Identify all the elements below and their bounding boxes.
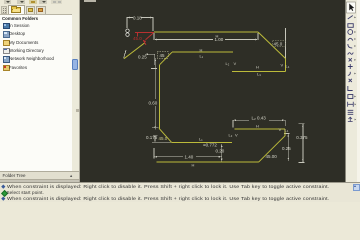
svg-text:V: V xyxy=(281,63,284,68)
Folder Tree footer bar xyxy=(0,171,79,180)
svg-text:V: V xyxy=(235,133,238,138)
svg-text:H: H xyxy=(256,123,259,128)
svg-text:L₄: L₄ xyxy=(286,64,290,69)
line tool xyxy=(348,16,353,20)
panel/canvas separator xyxy=(79,0,81,182)
item Network Neighborhood icon xyxy=(3,56,10,62)
offset edge tool xyxy=(348,95,353,99)
svg-text:H: H xyxy=(200,48,203,53)
curve tool xyxy=(348,72,350,76)
svg-text:L₂: L₂ xyxy=(226,61,230,66)
svg-text:45.0: 45.0 xyxy=(133,36,142,41)
sketcher canvas xyxy=(80,0,346,182)
0.20 arrows xyxy=(221,144,223,147)
svg-text:L₂: L₂ xyxy=(229,133,233,138)
left tall vertical xyxy=(159,65,161,129)
dimension 1.40 bottom xyxy=(154,148,222,159)
dimension 1.00 top xyxy=(154,33,258,40)
blue sash handle xyxy=(72,59,78,70)
0.175 arrows xyxy=(154,136,155,138)
svg-text:0.18: 0.18 xyxy=(133,15,142,20)
top edge toolbar remnant xyxy=(84,0,96,2)
left navigator panel background xyxy=(0,0,80,182)
fillet tool xyxy=(348,44,352,48)
right toolbar xyxy=(345,0,357,182)
active folder tab xyxy=(8,5,25,15)
svg-text:0.25: 0.25 xyxy=(282,146,291,151)
item My Documents icon xyxy=(3,40,10,46)
bottom message area xyxy=(0,182,360,202)
short vertical right xyxy=(285,59,287,72)
0.25 right arrows xyxy=(288,134,290,137)
dimension arrowheads xyxy=(127,17,304,163)
arc tool xyxy=(348,38,353,40)
0.18 arrows xyxy=(127,17,130,19)
svg-text:L₂ 0.43: L₂ 0.43 xyxy=(252,116,267,121)
dimension 0.375 far right vertical xyxy=(299,124,305,163)
45 deg diagonal lower right xyxy=(259,136,286,162)
message line 1 xyxy=(1,185,5,189)
message scrollbar arrow xyxy=(353,184,360,191)
svg-text:0.25: 0.25 xyxy=(138,54,147,59)
rectangle tool xyxy=(348,24,353,28)
panel scrollbar strip xyxy=(72,14,79,171)
1.40 arrows xyxy=(154,156,157,158)
red arrowhead xyxy=(143,40,146,43)
sketch geometry (yellow) xyxy=(124,32,286,162)
svg-text:L₄: L₄ xyxy=(285,128,289,133)
0.60 arrows xyxy=(154,58,156,61)
point x tool xyxy=(348,79,351,82)
0.375 arrows xyxy=(302,124,304,127)
item Favorites icon xyxy=(3,65,10,71)
constraint labels xyxy=(192,33,290,167)
white helper line near cursor xyxy=(124,50,126,58)
svg-text:0.20: 0.20 xyxy=(216,148,225,153)
message line 2 xyxy=(1,190,8,197)
chamfer upper left xyxy=(160,52,173,65)
white folder list area xyxy=(0,14,72,171)
dashes around 45.0 upper right xyxy=(273,41,286,47)
circle tool xyxy=(348,30,353,35)
horizontal line y129 xyxy=(235,128,285,130)
dimension tool xyxy=(347,102,353,107)
1.00 arrows xyxy=(154,39,157,41)
dimension 0.20 vertical xyxy=(221,144,223,162)
dimension 0.175 bracket xyxy=(153,136,157,142)
use edge tool xyxy=(348,86,353,91)
small scroll mark xyxy=(76,109,79,112)
message line 3 xyxy=(1,196,5,200)
svg-text:45.0: 45.0 xyxy=(159,136,168,141)
top toolbar partial row xyxy=(4,0,11,4)
canvas background xyxy=(80,0,346,182)
item Desktop icon xyxy=(3,31,10,38)
chamfer lower left xyxy=(159,128,172,142)
svg-text:L₃: L₃ xyxy=(257,72,261,77)
horizontal line y71 xyxy=(232,70,286,72)
svg-text:≡0.772: ≡0.772 xyxy=(203,143,217,148)
spline tool xyxy=(347,53,353,55)
constraint tool xyxy=(348,117,353,121)
dimension 0.60 vertical xyxy=(152,58,159,130)
red highlighted segment xyxy=(135,33,154,45)
svg-text:H: H xyxy=(192,163,195,168)
top horizontal line xyxy=(154,31,258,33)
0.25 chamfer arrow xyxy=(145,53,148,55)
svg-text:V: V xyxy=(279,127,282,132)
dimension 0.18 bracket xyxy=(127,18,153,32)
point tool xyxy=(348,58,351,61)
dimension 0.25 chamfer bracket xyxy=(145,54,157,68)
svg-text:0.175: 0.175 xyxy=(146,135,158,140)
start point snap circles xyxy=(126,29,129,32)
svg-text:0.375: 0.375 xyxy=(296,135,308,140)
svg-text:1.40: 1.40 xyxy=(185,154,194,159)
modify tool xyxy=(347,110,353,114)
tab button 2 xyxy=(26,6,35,15)
bottom horizontal line xyxy=(157,161,259,163)
short vertical lower right xyxy=(284,129,286,136)
svg-text:0.60: 0.60 xyxy=(149,101,158,106)
navigator tab bar xyxy=(1,6,7,14)
svg-text:H: H xyxy=(216,33,219,38)
svg-text:H: H xyxy=(256,64,259,69)
dimension L2 0.43 xyxy=(233,120,285,127)
tab button 3 xyxy=(36,6,46,15)
angle 45 extension upper right xyxy=(285,28,287,62)
item Working Directory icon xyxy=(3,48,10,54)
dimension texts xyxy=(133,15,308,159)
Common Folders header xyxy=(2,16,38,21)
coord system tool xyxy=(348,64,353,69)
panel bottom seam xyxy=(0,180,79,182)
dimension 0.25 right vertical xyxy=(284,134,290,161)
select arrow button (pressed) xyxy=(346,2,355,13)
svg-text:V: V xyxy=(234,61,237,66)
extension line left of lower line xyxy=(152,141,172,143)
item In Session icon xyxy=(3,23,10,30)
weak dim 45 box upper-left xyxy=(157,52,168,59)
45 deg diagonal upper right xyxy=(258,32,286,59)
horizontal line y52 xyxy=(172,51,233,53)
svg-text:45.0: 45.0 xyxy=(274,41,283,46)
lower horizontal line1 xyxy=(172,141,233,143)
rubber band diagonal at cursor xyxy=(124,43,145,59)
svg-text:45.00: 45.00 xyxy=(266,154,278,159)
0.43 arrows xyxy=(233,119,236,121)
svg-text:45: 45 xyxy=(160,53,166,58)
